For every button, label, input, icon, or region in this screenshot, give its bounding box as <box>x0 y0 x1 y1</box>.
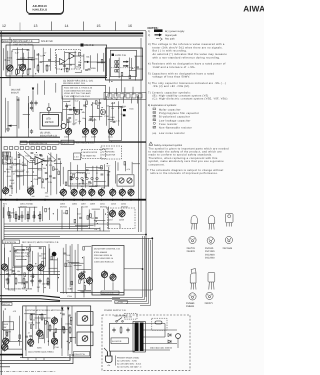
svg-text:N. FILTER: N. FILTER <box>112 340 122 343</box>
svg-text:10k: 10k <box>94 228 97 231</box>
svg-text:R412: R412 <box>6 168 11 171</box>
wire bundle jack-low <box>109 87 133 97</box>
transistor QB6 <box>2 343 8 352</box>
note 2 arrow <box>148 33 178 37</box>
value labels secG-mid <box>81 164 111 189</box>
svg-text:MUTE: MUTE <box>110 120 116 123</box>
svg-text:R309: R309 <box>119 105 123 108</box>
svg-text:SW 20011-3 REC CAL: SW 20011-3 REC CAL <box>63 82 86 85</box>
svg-text:(C) DOLBY NR C.B B.C, CAL: (C) DOLBY NR C.B B.C, CAL <box>63 79 94 82</box>
secondary sub box <box>152 318 167 330</box>
resistor group secM-bl <box>25 314 72 342</box>
value labels secE-fan <box>10 208 50 215</box>
transistor package e <box>208 273 215 290</box>
label strip row <box>20 140 95 145</box>
nested corner lines <box>60 299 120 301</box>
note 2b rec path <box>156 37 175 40</box>
node dots secD-right <box>0 0 1 1</box>
AC plug P401 <box>104 348 112 366</box>
value labels secK-mid <box>66 254 73 298</box>
grid number 15 <box>97 24 101 28</box>
fuse F401 <box>155 321 162 324</box>
connector row right <box>104 92 146 99</box>
svg-text:2SC1345: 2SC1345 <box>205 250 215 253</box>
value labels belowA-left <box>0 0 1 1</box>
transistor QR6 <box>110 188 116 197</box>
grid tick <box>115 22 117 31</box>
elco C451 <box>176 334 181 348</box>
svg-text:(J) SYSCON: (J) SYSCON <box>4 241 17 244</box>
transistor QR1 <box>60 188 66 197</box>
svg-text:10k: 10k <box>90 116 93 119</box>
svg-text:AC 110-120V, 220-240V : C: AC 110-120V, 220-240V : C <box>117 366 142 369</box>
level indicator label <box>40 124 66 138</box>
svg-text:METER: METER <box>45 121 54 124</box>
svg-text:component.: component. <box>149 163 165 166</box>
svg-text:1.5k: 1.5k <box>3 161 6 164</box>
svg-text:POWER SUPPLY C.B: POWER SUPPLY C.B <box>104 309 126 312</box>
svg-text:0.022: 0.022 <box>98 167 103 170</box>
wire bundle secE-fan <box>3 206 57 221</box>
svg-text:0.47: 0.47 <box>15 51 19 54</box>
node dots secM-left <box>5 309 20 342</box>
transistor QM1 <box>66 127 72 136</box>
svg-text:C214: C214 <box>67 295 72 298</box>
svg-text:IC301 AN6650: IC301 AN6650 <box>94 251 108 254</box>
svg-text:2): 2) <box>148 34 150 37</box>
svg-text:AC SW: AC SW <box>125 316 132 319</box>
wire QM risers <box>69 118 112 142</box>
transistor QK2 <box>86 276 92 285</box>
svg-text:3.3: 3.3 <box>48 208 51 211</box>
transistor QS2 <box>119 209 125 218</box>
jack box B outer <box>106 48 143 80</box>
diagonal wire b <box>24 151 34 160</box>
primary box <box>109 324 134 352</box>
section A header text <box>2 39 53 46</box>
diode D452 <box>168 340 171 343</box>
value labels secM-left <box>5 310 16 350</box>
svg-text:Fuse resistor: Fuse resistor <box>159 123 178 126</box>
mid Y-transistor sketch 2 <box>100 109 106 115</box>
fan risers <box>4 205 152 290</box>
Q labels <box>7 57 26 60</box>
svg-text:AIWA: AIWA <box>243 4 264 13</box>
transistor QR7 <box>119 188 125 197</box>
resistor group jackB <box>121 67 139 79</box>
transistor QM2 <box>82 127 88 136</box>
grid number 12 <box>2 24 6 28</box>
J lower parts <box>5 277 49 291</box>
grid number 16 <box>128 24 132 28</box>
transistor QJ3 <box>38 263 44 272</box>
note 1 swatch <box>148 29 185 33</box>
bl wires <box>26 306 72 356</box>
svg-text:47: 47 <box>22 161 24 164</box>
transistor package TO-92 b <box>208 216 214 230</box>
svg-text:AC 120V 60Hz : H,HU: AC 120V 60Hz : H,HU <box>117 360 137 363</box>
svg-text:MECHA: MECHA <box>3 303 11 306</box>
svg-text:Mylar capacitor: Mylar capacitor <box>159 108 181 111</box>
value labels secM-bl <box>28 319 70 350</box>
svg-text:AC 220-240V 50Hz : E,K,G: AC 220-240V 50Hz : E,K,G <box>117 363 142 366</box>
svg-text:DOLBY NR: DOLBY NR <box>41 40 53 43</box>
svg-text:47: 47 <box>28 331 30 334</box>
pin diagram b <box>207 237 214 244</box>
mid Y-transistor sketch 1 <box>74 109 80 115</box>
svg-text:22k: 22k <box>111 107 114 110</box>
resistor head group <box>16 64 48 76</box>
svg-text:330: 330 <box>49 164 52 167</box>
safety paragraph <box>149 147 230 166</box>
svg-text:S4 MPX FILTER: S4 MPX FILTER <box>83 151 98 154</box>
bottom-left label texts <box>25 309 65 312</box>
svg-text:S2 TAPE/SRC: S2 TAPE/SRC <box>102 151 115 154</box>
svg-text:R205: R205 <box>7 175 11 178</box>
transistor QS1 <box>109 209 115 218</box>
note 4 paragraph <box>148 63 226 69</box>
dash-dot bottom line <box>0 371 56 373</box>
transistor package TO-220 d <box>190 269 196 290</box>
bus label row 2 <box>20 205 128 208</box>
node dots secJ-left <box>10 247 59 291</box>
transistor QR3 <box>80 188 86 197</box>
left frame wire <box>0 31 2 375</box>
svg-text:CAPSTAN MOTOR REEL MOTOR D41: CAPSTAN MOTOR REEL MOTOR D411 <box>25 309 65 312</box>
svg-text:1/4W and a tolerance of +: 1/4W and a tolerance of +-5%. <box>153 66 196 69</box>
relay box top <box>125 314 138 320</box>
resistor group secD-mid <box>65 101 115 123</box>
resistor group secD-right <box>0 0 1 1</box>
svg-text:voltage of less than 50WV.: voltage of less than 50WV. <box>153 75 191 78</box>
J inner box <box>14 247 46 267</box>
section A outer box <box>6 45 107 76</box>
node dots secA-left <box>5 50 45 74</box>
value labels secG-right <box>127 168 131 171</box>
bl arrows <box>61 308 69 311</box>
transistor QJ1 <box>1 262 7 271</box>
transistor Q1 <box>7 63 13 72</box>
node dots jack-low <box>0 0 1 1</box>
transistor package TO-126 <box>226 214 234 227</box>
transistor QR5 <box>98 188 104 197</box>
svg-text:C333 0.033 R335 120: C333 0.033 R335 120 <box>94 260 114 263</box>
svg-text:H,HU,E,K,G: H,HU,E,K,G <box>33 9 48 12</box>
motor control board box <box>92 246 124 296</box>
svg-text:2SB834: 2SB834 <box>186 305 195 308</box>
capacitor C32 <box>30 106 33 111</box>
svg-text:S5 TIMER SW: S5 TIMER SW <box>83 154 96 157</box>
svg-text:2SC1846: 2SC1846 <box>223 247 233 250</box>
transistor QM4 <box>108 127 114 136</box>
svg-text:2SD880: 2SD880 <box>186 302 195 305</box>
bottom small label <box>2 349 8 352</box>
J label box small <box>2 303 12 306</box>
tick caps <box>8 213 41 221</box>
bl resistor group <box>30 313 71 334</box>
svg-text:R141 10k C141 4.7 R145 2.2k: R141 10k C141 4.7 R145 2.2k <box>64 87 93 90</box>
svg-text:2.2k: 2.2k <box>48 181 52 184</box>
wire bundle secF-left <box>3 151 62 195</box>
wire bundle secM-bl <box>24 313 76 351</box>
svg-text:D451-454 C451 1000/16: D451-454 C451 1000/16 <box>150 347 173 350</box>
value labels extra-left <box>3 154 49 198</box>
transistor QB5 <box>3 337 9 346</box>
resistor group secA-ic <box>63 52 103 72</box>
op-amp U1b <box>69 53 75 59</box>
node dots jackB <box>111 68 133 82</box>
svg-text:68k: 68k <box>9 194 12 197</box>
svg-text:220: 220 <box>78 61 81 64</box>
svg-text:2SC2240: 2SC2240 <box>205 257 215 260</box>
connector block mid <box>68 171 108 187</box>
pin diagram e <box>206 292 213 299</box>
svg-text:47: 47 <box>13 172 15 175</box>
wire bundle secK-mid <box>63 246 91 298</box>
svg-text:220: 220 <box>45 195 48 198</box>
svg-text:R309: R309 <box>91 67 96 70</box>
LN prefix <box>152 132 156 135</box>
node dots secE-fan <box>38 213 54 216</box>
svg-text:R101: R101 <box>76 66 81 69</box>
QM labels <box>64 136 113 139</box>
svg-text:56k: 56k <box>81 185 84 188</box>
svg-text:R309: R309 <box>30 275 35 278</box>
svg-text:Rec path: Rec path <box>165 37 175 40</box>
svg-text:R343 56k C343: R343 56k C343 <box>15 255 30 258</box>
line out text <box>11 89 21 95</box>
value labels secH-mid <box>63 212 97 231</box>
capacitor C34 <box>34 101 37 106</box>
svg-text:1.5k: 1.5k <box>88 119 91 122</box>
svg-text:PB EQ: PB EQ <box>3 154 10 157</box>
svg-text:10k: 10k <box>17 270 20 273</box>
signal arrow <box>84 61 90 63</box>
svg-text:C118: C118 <box>34 178 38 181</box>
svg-text:2SC2603: 2SC2603 <box>205 253 215 256</box>
svg-text:R205: R205 <box>129 108 133 111</box>
svg-text:13: 13 <box>34 24 38 28</box>
wire meter risers <box>8 96 28 137</box>
resistor group secA-left <box>18 49 51 73</box>
main B+ heavy bus <box>0 199 146 201</box>
transistor QR8 <box>128 188 134 197</box>
label 2SD880 <box>186 302 195 308</box>
grid tick <box>83 22 85 31</box>
node dots meter-left <box>0 0 1 1</box>
svg-text:R309: R309 <box>110 116 114 119</box>
resistor group secG-right <box>124 161 126 165</box>
svg-text:C331 3.3/50 R333 1k: C331 3.3/50 R333 1k <box>94 257 113 260</box>
svg-text:Q301 2SC945: Q301 2SC945 <box>20 202 34 205</box>
svg-text:15: 15 <box>97 24 101 28</box>
wire bundle secA-ic <box>56 51 105 74</box>
svg-text:AD-R9110: AD-R9110 <box>33 4 48 8</box>
node dots secF-left <box>4 152 60 193</box>
J wires verticals <box>5 244 55 275</box>
svg-text:0.47: 0.47 <box>107 164 111 167</box>
svg-text:56k: 56k <box>82 111 85 114</box>
svg-text:12: 12 <box>2 24 6 28</box>
svg-text:(E) LEVEL: (E) LEVEL <box>40 132 52 135</box>
svg-text:MOTOR C.B: MOTOR C.B <box>102 292 114 295</box>
bus label row <box>3 202 127 205</box>
svg-text:2SD571: 2SD571 <box>205 302 214 305</box>
transistor QL2 <box>28 187 34 196</box>
svg-text:(LN): (LN) <box>152 132 156 135</box>
J mid hline <box>0 274 60 276</box>
svg-text:R331 560 VR301 5k: R331 560 VR301 5k <box>94 254 112 257</box>
svg-text:470: 470 <box>13 310 16 313</box>
wire Q risers <box>10 37 33 86</box>
jack J3 socket <box>115 70 119 73</box>
svg-text:10k: 10k <box>93 118 96 121</box>
power supply text right <box>104 309 126 312</box>
svg-text:470: 470 <box>91 217 94 220</box>
svg-text:1k: 1k <box>33 319 35 322</box>
node dots secA-ic <box>61 55 82 71</box>
diagonal wire c <box>48 153 56 160</box>
svg-text:(H) SW C.B: (H) SW C.B <box>102 148 113 151</box>
svg-text:R205: R205 <box>37 346 42 349</box>
svg-text:REC SELECT, MUTE CONTROL C.B: REC SELECT, MUTE CONTROL C.B <box>22 241 59 244</box>
node dots secG-mid <box>79 163 110 184</box>
svg-text:2SA733: 2SA733 <box>187 247 196 250</box>
svg-text:R118: R118 <box>25 155 29 158</box>
resistor group secG-mid <box>65 166 103 186</box>
svg-text:B(+): B(+) <box>3 202 7 205</box>
svg-text:Q411 2SD880 Q413 2SB561: Q411 2SD880 Q413 2SB561 <box>28 351 55 354</box>
grid tick <box>19 23 21 31</box>
svg-text:C118: C118 <box>92 102 96 105</box>
wire to box <box>124 268 143 270</box>
transistor QM3 <box>91 127 97 136</box>
svg-text:10k: 10k <box>82 117 85 120</box>
svg-text:2.2k: 2.2k <box>78 120 81 123</box>
svg-text:47: 47 <box>44 52 46 55</box>
svg-text:0.01: 0.01 <box>8 269 12 272</box>
jack box B inner <box>110 50 136 76</box>
motor box 2 <box>77 332 93 346</box>
label 2SC1846 <box>223 247 233 250</box>
motor box 1 <box>77 312 93 326</box>
svg-text:R205: R205 <box>19 175 23 178</box>
svg-text:4.7k: 4.7k <box>127 168 131 171</box>
lamp node <box>47 103 51 115</box>
resistor group secM-left <box>6 332 21 339</box>
svg-text:330: 330 <box>32 195 35 198</box>
svg-text:3.3: 3.3 <box>26 171 29 174</box>
transistor QR4 <box>89 188 95 197</box>
op-amp big triangle <box>30 157 52 165</box>
svg-text:REC/PB AMP C.B: REC/PB AMP C.B <box>14 40 33 43</box>
svg-text:S3 DOLBY NR: S3 DOLBY NR <box>102 154 116 157</box>
value labels extra-mid <box>67 100 134 125</box>
jack dashed divider <box>111 67 136 69</box>
node dots secD-mid <box>67 98 119 110</box>
wire bundle secA-left <box>4 48 51 75</box>
primary parts <box>112 326 129 334</box>
svg-text:16: 16 <box>128 24 132 28</box>
svg-text:4.7k: 4.7k <box>41 186 45 189</box>
bundle junction dot <box>142 268 144 270</box>
svg-text:POWER TRANS (T401): POWER TRANS (T401) <box>117 356 139 359</box>
pin diagram c <box>225 236 232 243</box>
section J label strip <box>3 240 59 244</box>
svg-text:with a non-standard referen: with a non-standard reference during rec… <box>153 56 221 59</box>
note 3 paragraph <box>148 43 227 59</box>
mech board box <box>23 306 91 358</box>
node dots secH-mid <box>96 207 108 224</box>
label 2SC945 <box>205 247 215 260</box>
svg-text:IC1 C.B: IC1 C.B <box>85 44 94 47</box>
svg-text:(K) MOTOR CONTROL C.B: (K) MOTOR CONTROL C.B <box>94 247 120 250</box>
svg-text:R101: R101 <box>83 98 88 101</box>
svg-text:R205: R205 <box>10 212 15 215</box>
DWL label box <box>74 351 90 356</box>
transistor QK3 <box>101 270 107 279</box>
resistor group secF-left <box>6 152 61 187</box>
grid tick <box>51 22 53 31</box>
svg-text:0.01: 0.01 <box>111 102 115 105</box>
B+ bus heavy line <box>0 32 143 34</box>
elco C41 <box>52 252 57 257</box>
resistor group jack-low <box>0 0 1 1</box>
bottom thin lines <box>0 354 73 367</box>
node dots belowA-left <box>0 0 1 1</box>
svg-text:10k: 10k <box>7 171 10 174</box>
svg-text:3.3: 3.3 <box>11 187 14 190</box>
svg-text:B(+) power supply: B(+) power supply <box>165 30 185 33</box>
wire bundle secD-mid <box>63 95 119 126</box>
svg-text:10k: 10k <box>14 158 17 161</box>
ps value text <box>150 347 173 350</box>
interconnect fan <box>4 224 152 238</box>
grid number 14 <box>65 24 69 28</box>
svg-text:56k: 56k <box>66 259 69 262</box>
svg-text:R118: R118 <box>38 169 42 172</box>
svg-text:2SA933: 2SA933 <box>187 250 196 253</box>
svg-text:56k: 56k <box>86 56 89 59</box>
svg-text:C145 100P R147 5.6k D141: C145 100P R147 5.6k D141 <box>64 95 91 98</box>
dark blob component <box>123 109 126 116</box>
left arrow connector <box>7 125 17 127</box>
pin diagram a <box>189 236 196 243</box>
svg-text:R412: R412 <box>67 104 71 107</box>
svg-text:CN101 1 2 3 4 5 6 7 8: CN101 1 2 3 4 5 6 7 8 <box>70 172 90 175</box>
transistor QR2 <box>71 188 77 197</box>
right interconnect bundle <box>112 236 151 306</box>
svg-text:C107: C107 <box>15 169 19 172</box>
svg-text:IN/OUT: IN/OUT <box>11 91 19 94</box>
value labels secD-mid <box>75 98 109 124</box>
svg-text:Low leakage capacitor: Low leakage capacitor <box>159 119 191 122</box>
IC1 label <box>81 44 94 48</box>
resistor group belowA-left <box>0 0 1 1</box>
svg-text:8) Explanation of symbols:: 8) Explanation of symbols: <box>148 104 177 107</box>
svg-text:0.47: 0.47 <box>75 100 79 103</box>
wire bundle secG-mid <box>63 161 115 190</box>
grid number 13 <box>34 24 38 28</box>
svg-text:D301 D303 D305: D301 D303 D305 <box>15 248 32 251</box>
resistor group secE-fan <box>8 208 47 219</box>
change notice paragraph <box>147 169 223 175</box>
wire bundle secD-right <box>124 96 138 104</box>
svg-text:Low noise resistor: Low noise resistor <box>159 132 185 135</box>
svg-text:JACK C.B: JACK C.B <box>115 54 126 57</box>
transistor QB3 <box>28 338 34 347</box>
value labels secA-ic <box>65 56 95 71</box>
